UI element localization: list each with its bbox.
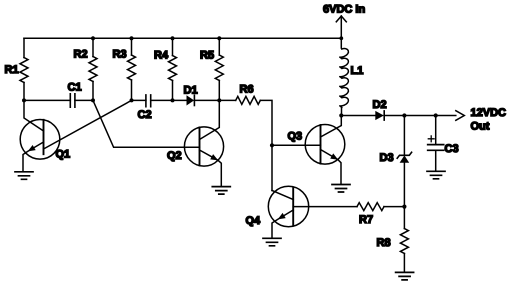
svg-text:R3: R3 bbox=[113, 49, 127, 61]
svg-text:L1: L1 bbox=[351, 65, 364, 77]
svg-text:D2: D2 bbox=[373, 99, 387, 111]
svg-text:Q4: Q4 bbox=[246, 215, 262, 227]
svg-text:6VDC In: 6VDC In bbox=[323, 3, 365, 15]
svg-text:Q2: Q2 bbox=[167, 150, 182, 162]
svg-text:Q3: Q3 bbox=[288, 131, 303, 143]
svg-text:R5: R5 bbox=[200, 50, 214, 62]
svg-text:R1: R1 bbox=[5, 64, 19, 76]
svg-text:R6: R6 bbox=[240, 83, 254, 95]
svg-text:C1: C1 bbox=[68, 82, 82, 94]
svg-text:R7: R7 bbox=[359, 214, 373, 226]
svg-text:D1: D1 bbox=[184, 84, 198, 96]
svg-text:C2: C2 bbox=[138, 109, 152, 121]
svg-text:C3: C3 bbox=[445, 143, 459, 155]
svg-text:D3: D3 bbox=[380, 152, 394, 164]
svg-text:R8: R8 bbox=[377, 237, 391, 249]
svg-text:Out: Out bbox=[471, 120, 490, 132]
svg-text:R2: R2 bbox=[74, 49, 88, 61]
svg-text:12VDC: 12VDC bbox=[471, 107, 507, 119]
svg-text:R4: R4 bbox=[154, 50, 169, 62]
svg-text:Q1: Q1 bbox=[56, 149, 71, 161]
